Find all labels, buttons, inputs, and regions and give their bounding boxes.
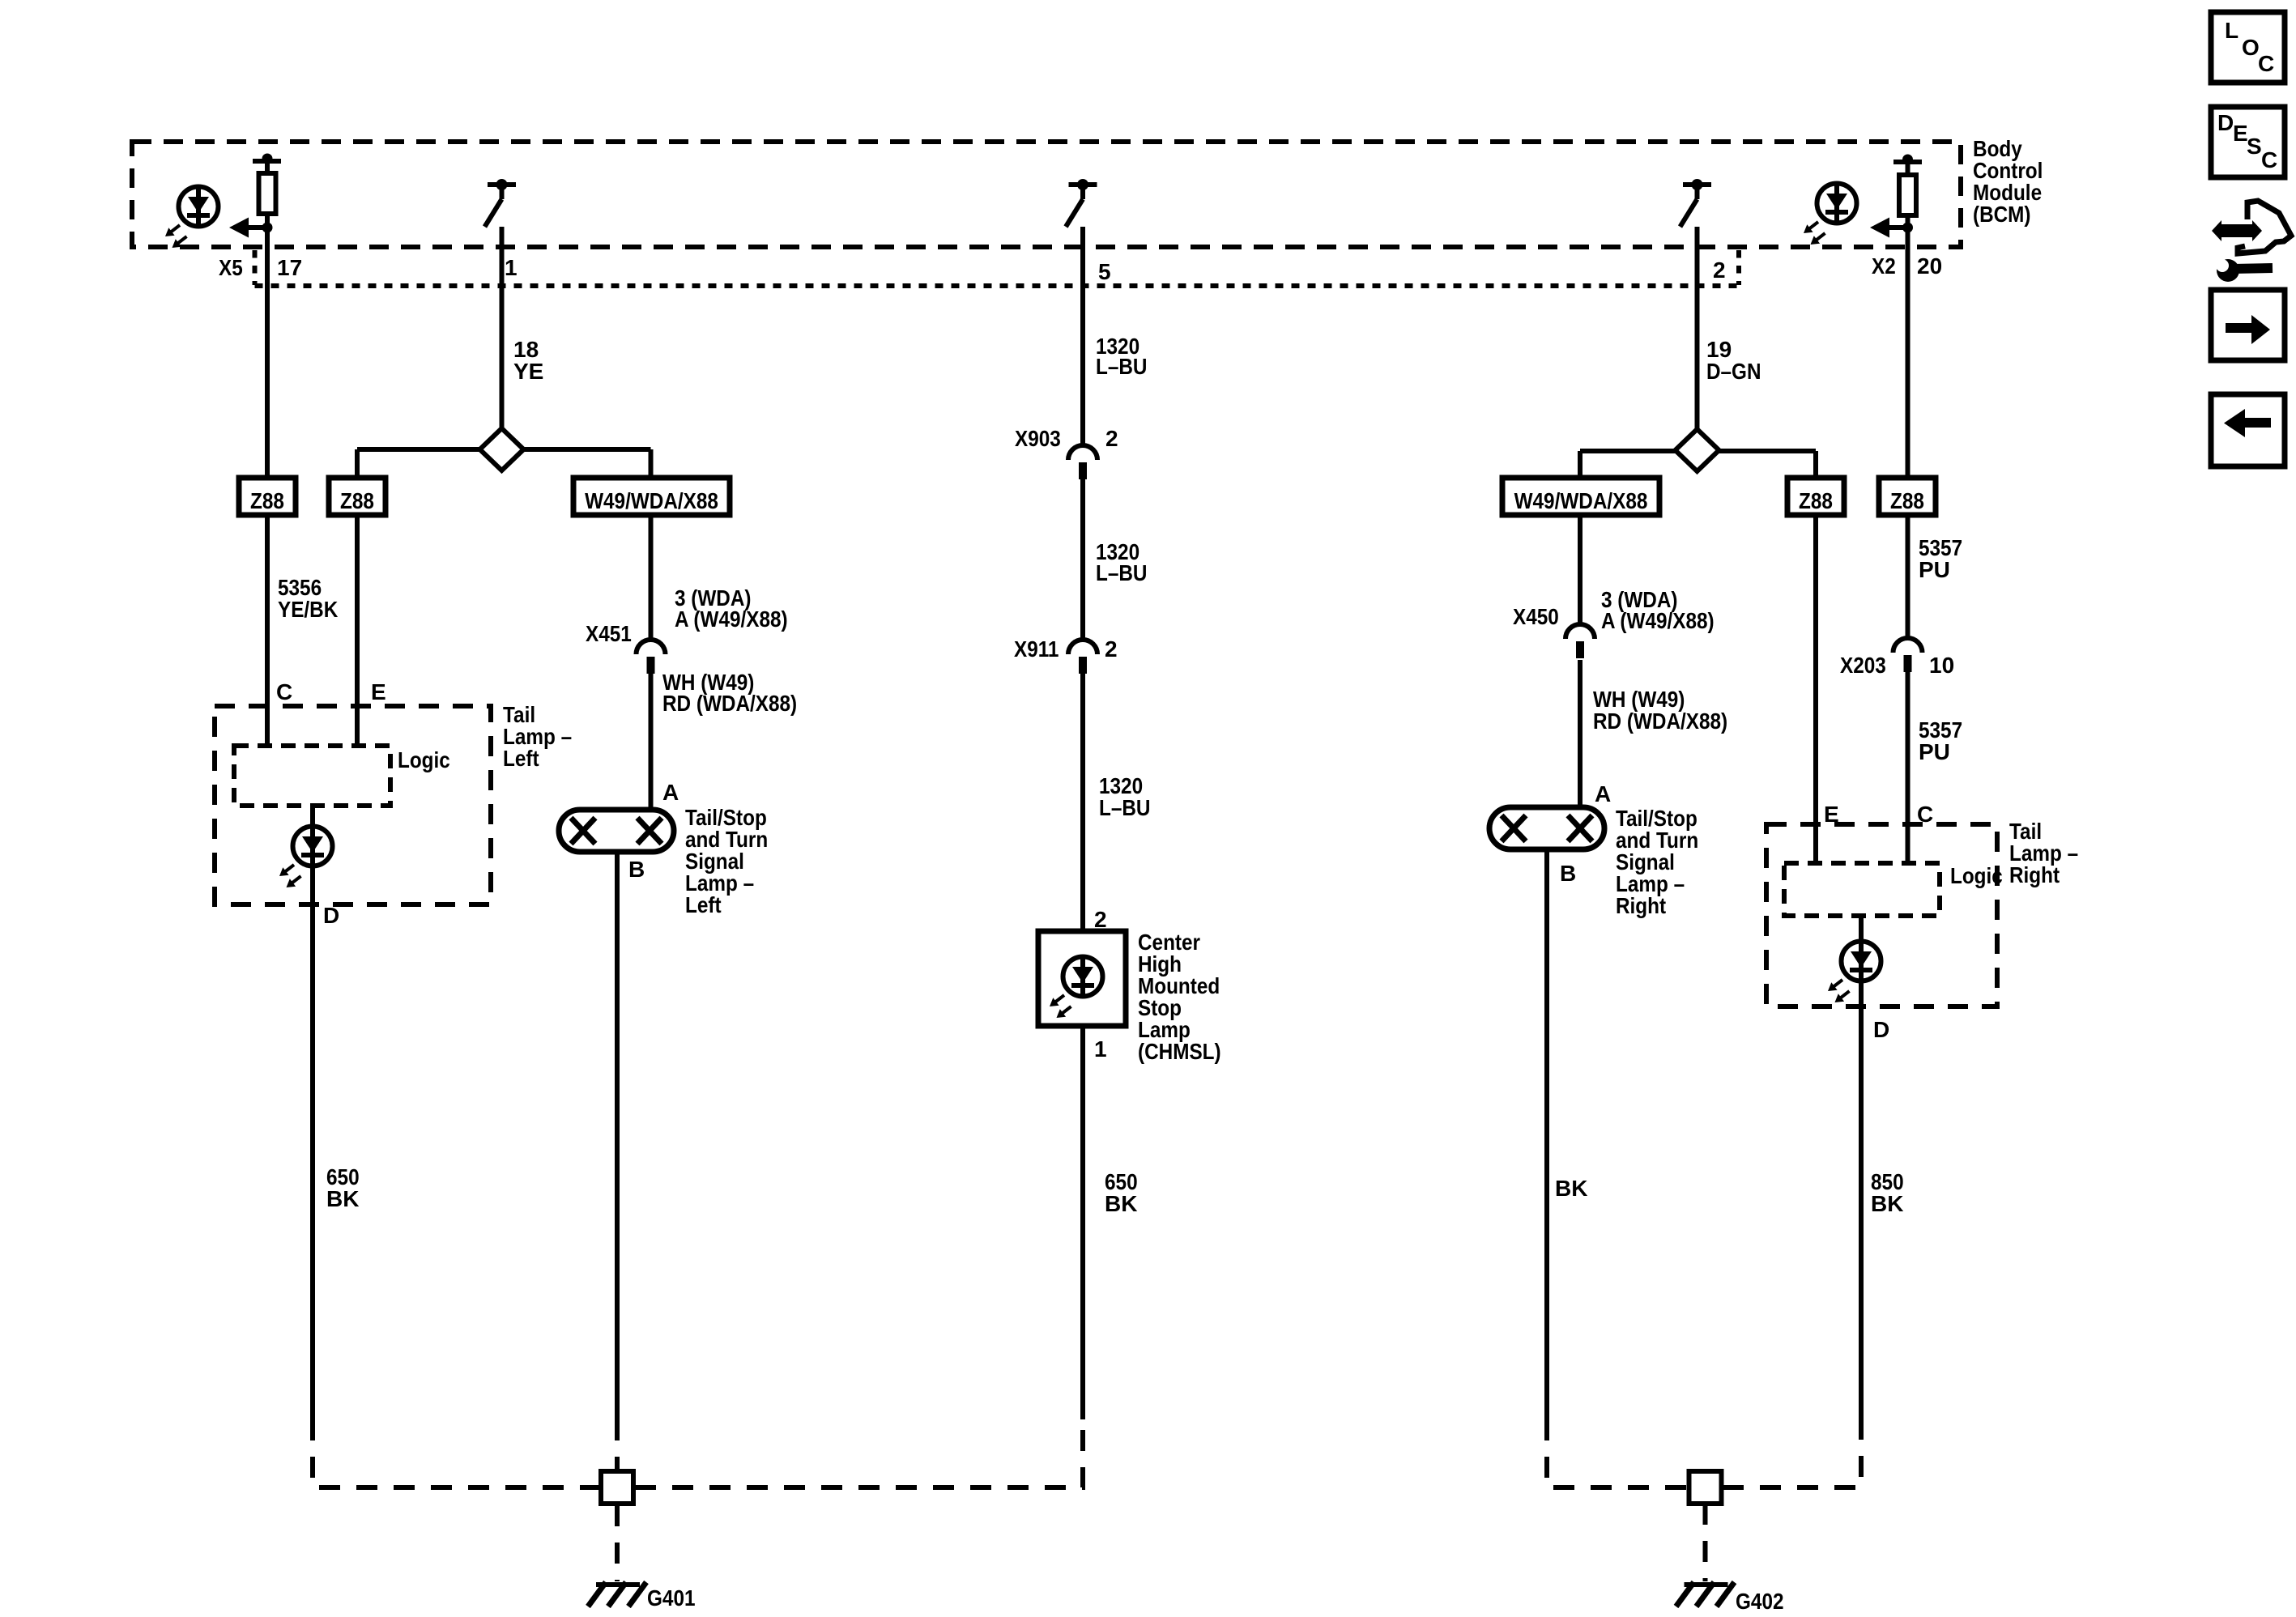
svg-text:YE: YE [513,359,543,384]
svg-text:Logic: Logic [398,747,450,772]
icon remove/install: component outline [2238,201,2291,253]
takeout Z88 (X2-20 branch) [1879,478,1936,515]
BCM left output terminal T-bar [253,159,281,164]
wire: branch down to Z88 takeout (E side) [355,449,360,478]
svg-text:B: B [628,857,645,882]
in-line harness connector dotted row [255,283,1740,288]
signal arrow (left, pointing left) [229,218,249,238]
svg-text:G402: G402 [1736,1589,1784,1614]
svg-text:W49/WDA/X88: W49/WDA/X88 [585,488,718,513]
svg-text:Z88: Z88 [340,488,374,513]
connector X451 [637,640,666,674]
svg-text:O: O [2242,35,2260,60]
splice diamond (left) [480,428,524,470]
BCM switch output pin 2 (right turn) [1680,179,1712,227]
svg-text:10: 10 [1929,653,1954,678]
dashed ground run: right bulb B to bus corner [1547,1419,1687,1487]
LED lamp element (CHMSL) [1050,955,1103,1018]
junction dot on right T-bar [1902,155,1913,165]
Tail Lamp Left dashed housing [215,706,491,904]
dashed lead to ground G402 [1703,1504,1708,1581]
svg-text:B: B [1560,861,1576,886]
svg-text:Left: Left [503,746,539,771]
arrow-left glyph [2224,409,2271,437]
svg-text:A (W49/X88): A (W49/X88) [1601,608,1715,633]
Tail Lamp Right dashed housing [1766,824,1997,1006]
LED lamp element (left tail lamp) [279,824,333,887]
svg-text:Z88: Z88 [1890,488,1924,513]
svg-text:2: 2 [1713,257,1726,283]
icon box arrow-right [2211,290,2285,360]
svg-text:Z88: Z88 [1799,488,1833,513]
BCM right LED indicator [1804,181,1857,245]
ground G402 [1676,1582,1735,1606]
svg-text:17: 17 [277,255,302,280]
wire WH/RD: X450 to right lamp pin A [1578,660,1582,810]
svg-text:1: 1 [1094,1036,1107,1062]
junction dot on T-bar [262,154,273,164]
wire: logic out through LED to ground run 650 BK [310,806,315,1419]
svg-text:L–BU: L–BU [1096,354,1148,379]
wire: BCM left resistor down through pin X5-17 to Z88 takeout [265,214,270,478]
wire WH/RD: X451 to lamp pin A [649,674,654,812]
svg-text:YE/BK: YE/BK [278,597,338,622]
svg-text:E: E [2233,121,2248,146]
svg-text:BK: BK [1555,1176,1587,1201]
svg-text:X450: X450 [1513,604,1559,629]
connector X203 [1893,638,1923,672]
wire 1320 L-BU: switch pin5 down to X903 [1080,227,1085,447]
dashed ground run: left lamp D to bus corner [313,1419,599,1487]
svg-text:C: C [276,679,292,704]
BCM left LED indicator [165,185,219,248]
svg-text:A: A [662,780,679,805]
logic module box (right lamp) [1784,863,1940,916]
svg-text:D–GN: D–GN [1706,359,1761,384]
svg-text:5: 5 [1098,259,1111,284]
dashed lead to ground G401 [615,1505,620,1581]
svg-text:X2: X2 [1872,253,1896,279]
signal arrow (right, pointing left) [1870,218,1889,238]
svg-text:RD (WDA/X88): RD (WDA/X88) [1593,709,1727,734]
svg-text:C: C [2258,51,2274,76]
wire 19 D-GN: switch pin2 down to splice diamond [1695,227,1700,432]
wire 650 BK: CHMSL pin 1 down to ground bus [1080,1026,1085,1419]
BCM switch output pin 5 (CHMSL) [1066,179,1097,227]
svg-text:E: E [371,679,386,704]
svg-text:PU: PU [1919,557,1950,582]
wire 18 YE: switch pin1 down to splice diamond [500,227,505,431]
icon remove/install: wrench [2217,259,2239,282]
svg-text:X5: X5 [219,255,243,280]
svg-text:20: 20 [1917,253,1942,279]
ground G401 [588,1582,646,1606]
junction dot above arrow (left) [262,223,273,233]
svg-text:A (W49/X88): A (W49/X88) [675,606,788,632]
Tail/Stop and Turn Signal Lamp Left (dual filament bulb) [559,810,674,852]
LED lamp element (right tail lamp) [1828,939,1881,1002]
wire 5356 YE/BK: Z88 to tail lamp left pin C [265,515,270,746]
Body Control Module (BCM) dashed outline [132,142,1961,247]
ground splice square S402 [1689,1471,1722,1504]
wire: BCM right resistor down through pin X2-20 to Z88 takeout [1906,215,1910,475]
icon box LOC [2211,12,2285,83]
takeout W49/WDA/X88 (left) [573,478,730,515]
wire 1320 L-BU: X911 to CHMSL pin 2 [1080,674,1085,933]
svg-text:Right: Right [2009,862,2060,887]
svg-text:BK: BK [326,1186,359,1211]
Center High Mounted Stop Lamp housing [1038,931,1126,1026]
svg-text:A: A [1595,781,1611,806]
wire: right W49 takeout down to connector X450 [1578,515,1582,626]
svg-text:D: D [1873,1017,1889,1042]
connector X911 [1068,640,1097,674]
wire: W49 takeout down to connector X451 [649,515,654,641]
logic module box (left lamp) [234,746,390,806]
svg-text:2: 2 [1105,636,1118,662]
wire: junction to right arrow [1888,225,1908,230]
ground splice square S401 [601,1471,633,1504]
dashed ground run: bus to CHMSL leg [635,1419,1083,1487]
svg-text:PU: PU [1919,739,1950,764]
resistor R-left (BCM internal) [259,173,276,214]
BCM switch output pin 1 (left turn) [485,179,517,227]
svg-text:X911: X911 [1014,636,1059,662]
icon box DESC [2211,107,2285,177]
svg-text:Logic: Logic [1950,863,2003,888]
BCM right output terminal T-bar [1893,160,1922,164]
svg-text:W49/WDA/X88: W49/WDA/X88 [1514,488,1648,513]
svg-text:(CHMSL): (CHMSL) [1138,1039,1221,1064]
svg-text:G401: G401 [647,1585,696,1611]
wire: junction to left arrow [247,225,267,230]
svg-text:X451: X451 [586,621,632,646]
stub T-bar to resistor R-left [265,161,270,173]
svg-text:X903: X903 [1015,426,1061,451]
wire: branch down to W49/WDA/X88 takeout [649,449,654,478]
connector X903 [1068,445,1097,479]
arrow-right glyph [2226,315,2270,344]
wire BK: right bulb pin B down to ground bus [1544,848,1549,1419]
svg-text:1: 1 [505,255,518,280]
stub T-bar to resistor R-right [1906,162,1910,175]
wire 19 D-GN: Z88 to right lamp pin E [1813,515,1818,863]
svg-text:D: D [323,903,339,928]
dashed ground run: left bulb B into splice square [615,1419,620,1470]
svg-text:BK: BK [1105,1191,1137,1216]
svg-text:Left: Left [685,892,722,917]
wire: splice branch horizontal (left) [357,447,651,452]
connector X2 boundary dashed segment [1736,250,1741,285]
wire: splice branch horizontal (right) [1580,449,1816,453]
svg-text:(BCM): (BCM) [1973,202,2031,227]
resistor R-right (BCM internal) [1899,175,1916,215]
wire: branch down to W49/WDA/X88 takeout (right) [1578,451,1582,478]
icon remove/install: double arrow [2212,220,2262,241]
svg-text:L–BU: L–BU [1096,560,1148,585]
wire: right logic out through LED to ground run 850 BK [1859,916,1864,1419]
icon box arrow-left [2211,394,2285,466]
takeout Z88 (X5-17 branch) [239,478,296,515]
svg-text:X203: X203 [1840,653,1886,678]
svg-text:Right: Right [1616,893,1666,918]
wire: branch down to Z88 takeout (right) [1813,451,1818,478]
takeout W49/WDA/X88 (right) [1502,478,1659,515]
svg-text:RD (WDA/X88): RD (WDA/X88) [662,691,797,716]
Tail/Stop and Turn Signal Lamp Right (dual filament bulb) [1489,807,1604,849]
wire 5357 PU: Z88 down to connector X203 [1906,513,1910,640]
svg-text:C: C [2261,147,2277,172]
svg-text:BK: BK [1871,1191,1903,1216]
svg-text:S: S [2247,134,2262,159]
wire 18 YE: Z88 to tail lamp left pin E [355,515,360,746]
wire BK: bulb pin B down to ground bus [615,850,620,1419]
connector X5 boundary dashed segment [253,250,258,285]
connector X450 [1565,624,1595,658]
junction dot above arrow (right) [1902,223,1913,233]
svg-text:L–BU: L–BU [1099,795,1151,820]
svg-text:D: D [2217,110,2234,135]
dashed ground run: bus to right lamp D leg [1723,1419,1861,1487]
takeout Z88 (splice branch) [329,478,386,515]
svg-text:2: 2 [1094,907,1107,932]
takeout Z88 (right branch) [1787,478,1844,515]
svg-text:L: L [2225,18,2238,43]
svg-text:Z88: Z88 [250,488,284,513]
svg-text:2: 2 [1105,426,1118,451]
wire 1320 L-BU: X903 to X911 [1080,479,1085,641]
splice diamond (right) [1676,429,1719,471]
wire 5357 PU: X203 to right lamp pin C [1906,672,1910,863]
